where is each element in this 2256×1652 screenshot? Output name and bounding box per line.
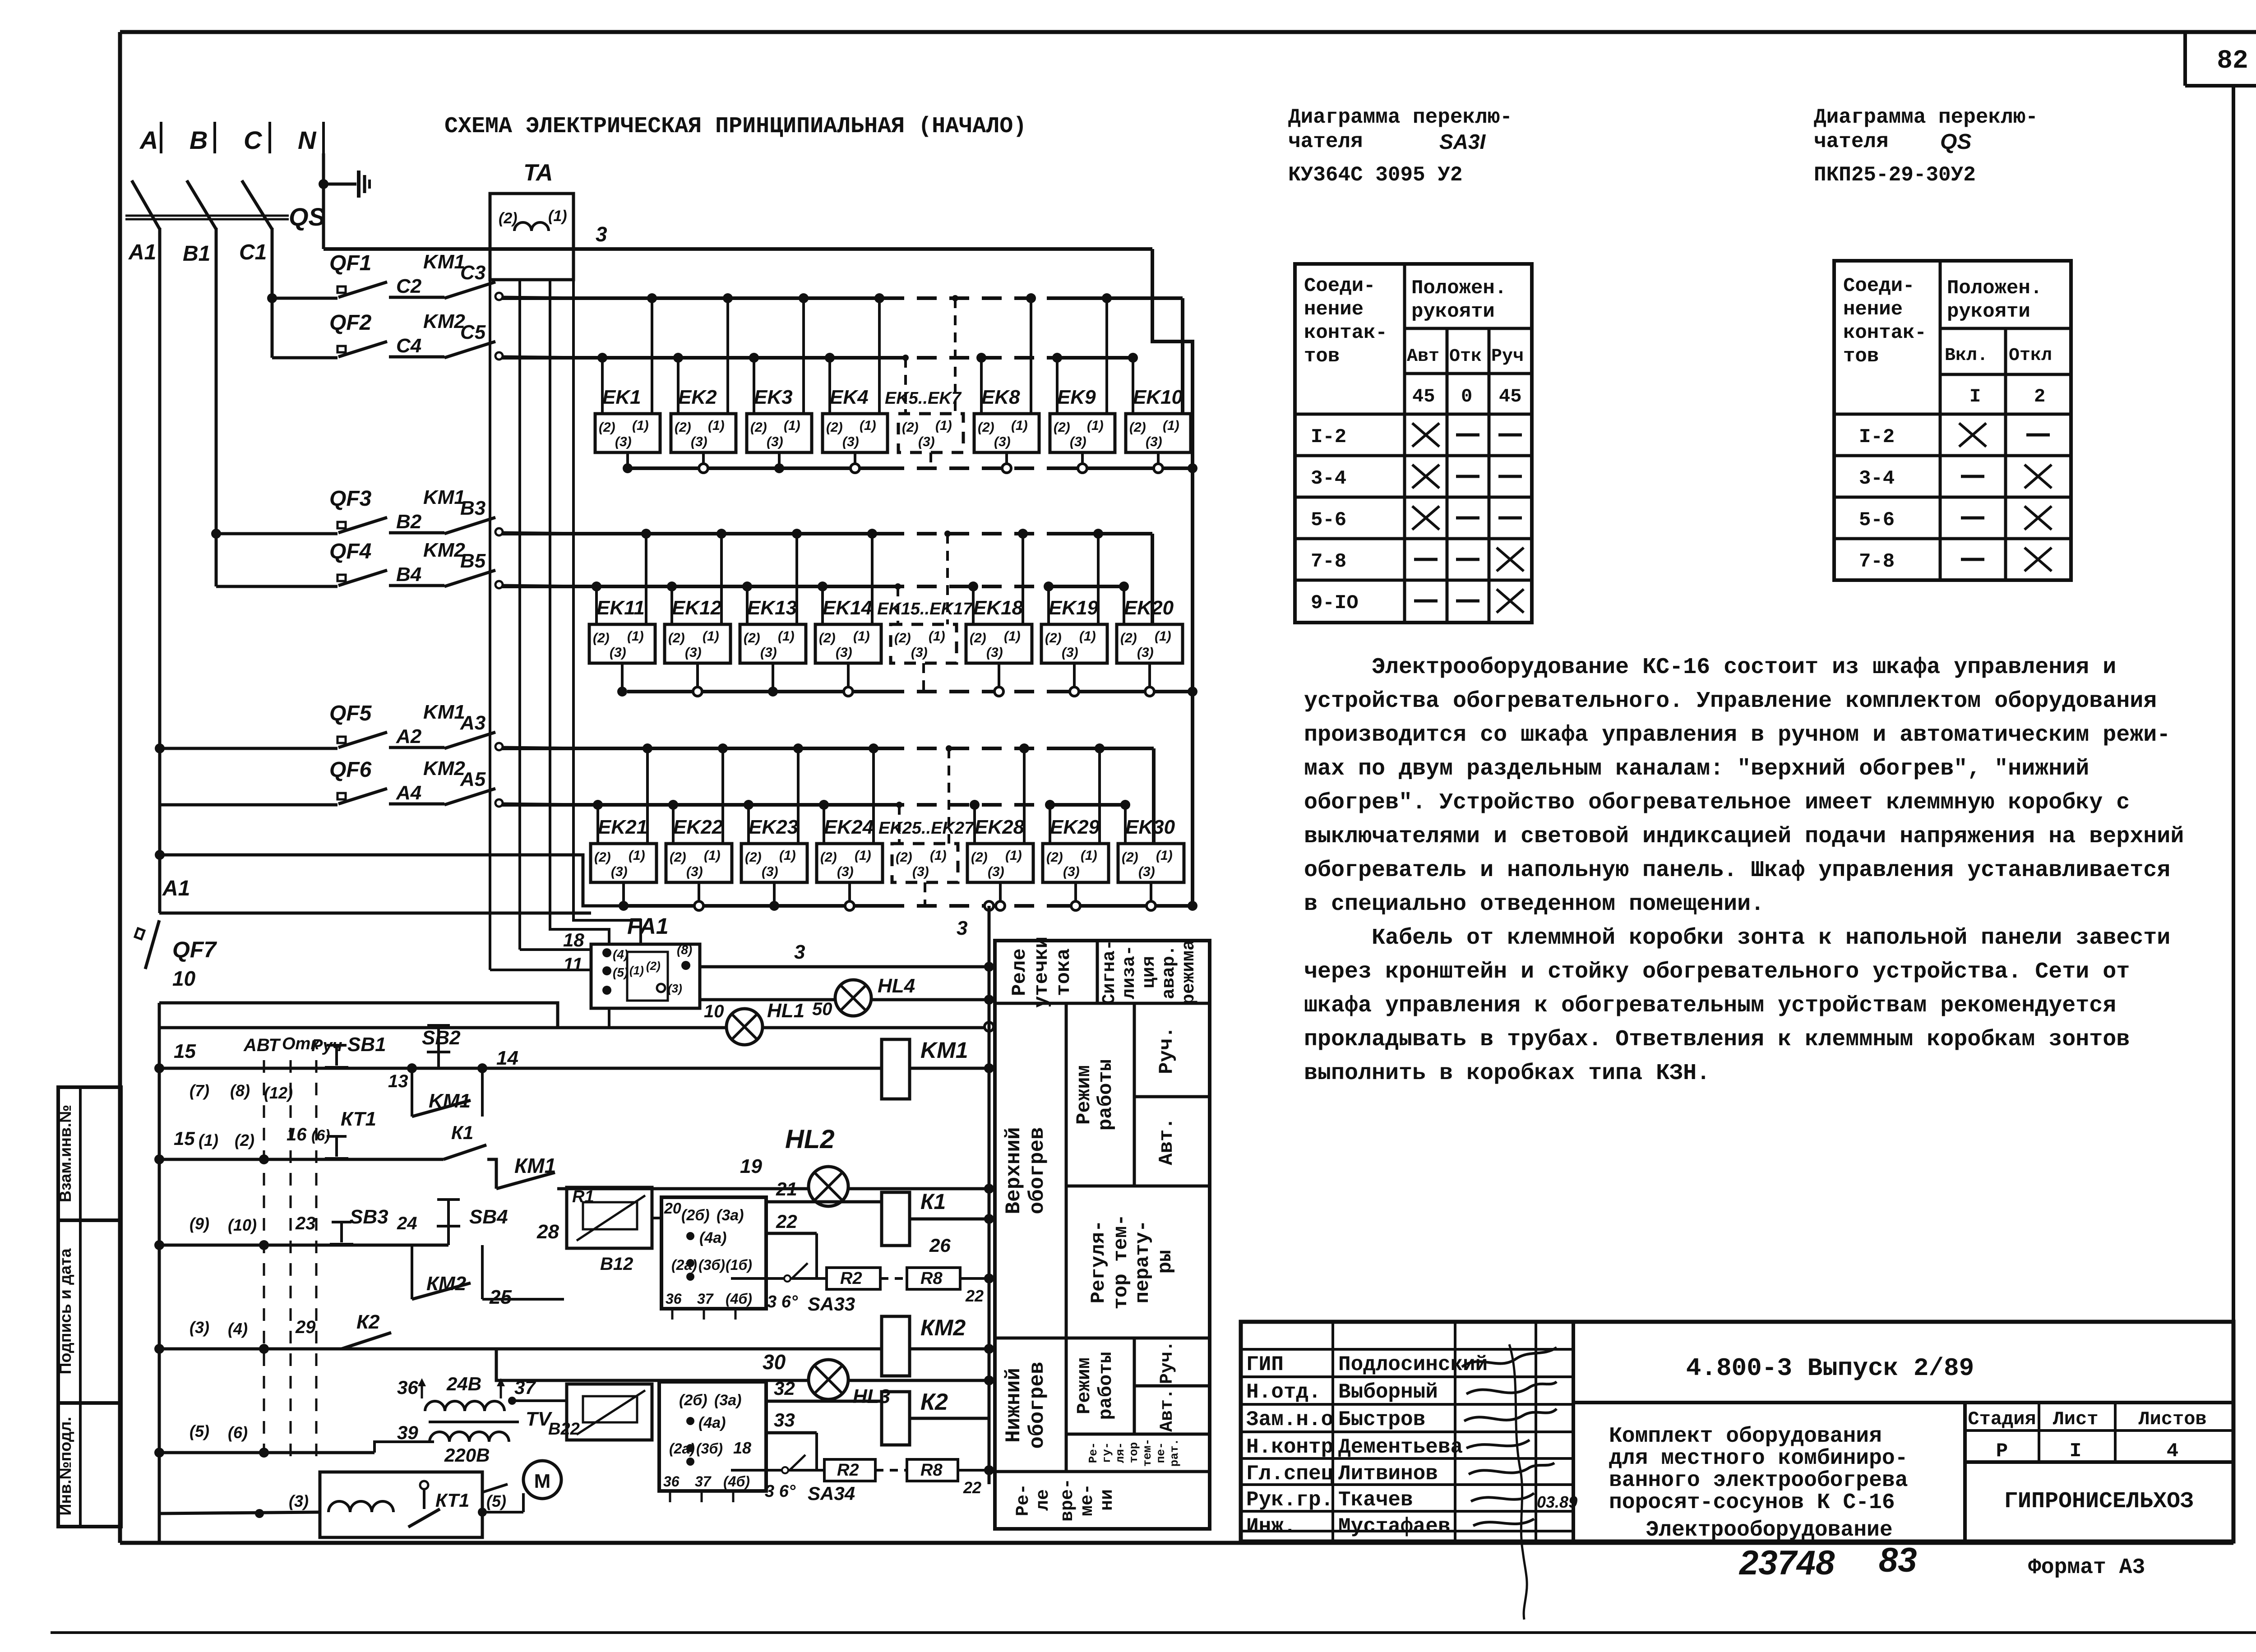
svg-text:мах по двум раздельным каналам: мах по двум раздельным каналам: "верхний… [1304,756,2089,782]
svg-text:39: 39 [397,1422,418,1443]
lower feed bus [502,356,884,360]
svg-text:(2): (2) [1122,850,1138,865]
cell Verkhniy obogrev [1065,1003,1068,1472]
wire to terminal 2 [672,805,675,844]
wire to terminal 2 [746,586,749,624]
svg-text:М: М [534,1470,551,1492]
svg-text:B2: B2 [396,511,422,533]
svg-text:37: 37 [695,1473,712,1490]
svg-text:SB4: SB4 [469,1206,508,1228]
svg-text:нение: нение [1304,298,1364,321]
svg-text:I: I [2070,1440,2081,1463]
svg-text:Ре-гу-ля-тортем-пе-рат.: Ре-гу-ля-тортем-пе-рат. [1086,1439,1181,1467]
svg-text:23: 23 [295,1214,316,1233]
mode table frame [995,941,1210,1529]
svg-text:33: 33 [774,1409,795,1431]
svg-text:(2): (2) [894,631,911,646]
svg-text:(1): (1) [1163,418,1179,433]
breaker QF3 [337,517,387,533]
svg-text:9-IO: 9-IO [1311,592,1359,614]
svg-text:HL2: HL2 [785,1125,835,1154]
wire [910,1067,989,1070]
svg-text:Взам.инв.№: Взам.инв.№ [56,1105,74,1202]
svg-text:(4б): (4б) [726,1291,752,1307]
svg-text:Откл: Откл [2009,346,2052,366]
wire sensor to regulator [652,1217,661,1219]
junction [155,850,165,860]
wire 22 [766,1232,817,1235]
svg-text:(5): (5) [190,1422,209,1440]
upper bus corner to last heater [1151,534,1154,624]
svg-text:(3): (3) [767,434,783,449]
wire [412,1244,448,1247]
wire to terminal 1 [871,534,874,624]
circuit breaker QF5 branch [155,743,165,753]
svg-text:A1: A1 [128,240,156,264]
svg-text:B4: B4 [396,563,421,586]
rung wire bottom feed [159,1451,374,1454]
contact terminal [495,352,503,360]
bus B vertical [215,228,218,586]
svg-text:QF1: QF1 [329,251,371,275]
FA1 terminal (4) [602,948,611,957]
wire 33 down to resistor chain [815,1433,818,1470]
wire HL3 branch [496,1349,989,1380]
wire N down to bus 3 [322,153,325,249]
wire terminal 3 to return bus [1073,663,1076,692]
svg-text:Электрооборудование: Электрооборудование [1646,1518,1892,1542]
svg-text:37: 37 [697,1291,714,1307]
svg-text:EK10: EK10 [1133,386,1183,408]
svg-text:KM1: KM1 [920,1038,968,1063]
svg-text:EK22: EK22 [673,816,723,838]
svg-text:15: 15 [174,1040,196,1062]
heater EK5..EK7 [898,414,963,452]
svg-text:(2): (2) [235,1131,254,1149]
svg-text:(3): (3) [986,645,1003,660]
coil K1 [882,1192,910,1246]
wire [910,1347,989,1351]
breaker QF4 [337,570,387,586]
temperature regulator A2 box [659,1382,766,1491]
wire TA1 to FA1 [490,969,591,971]
button SB4 [437,1200,460,1226]
junction [259,1154,269,1164]
TA secondary wire 1 [489,280,491,970]
svg-text:(3): (3) [1062,645,1078,660]
svg-text:(3): (3) [1146,434,1162,449]
cell Rezhim raboty upper [1133,1003,1136,1186]
svg-text:(8): (8) [230,1081,250,1100]
svg-text:выполнить в коробках типа КЗН.: выполнить в коробках типа КЗН. [1304,1061,1710,1086]
wire to terminal 1 [1098,748,1101,844]
junction [407,1063,417,1073]
circuit breaker QF6 branch [160,803,337,807]
wire TV to sensor B22 [512,1399,567,1402]
svg-text:EK18: EK18 [973,597,1023,619]
svg-text:29: 29 [295,1317,316,1337]
page number box [2183,32,2187,86]
heater EK14 [815,624,881,663]
svg-text:24В: 24В [446,1373,481,1394]
resistor R2 lower [824,1459,875,1481]
wire to terminal 1 [872,748,875,844]
wire [389,296,444,299]
sensor R1 box [567,1187,652,1248]
svg-text:QS: QS [289,203,325,231]
svg-text:SА3I: SА3I [1439,130,1486,153]
svg-text:ванного электрообогрева: ванного электрообогрева [1609,1468,1908,1493]
wire QF7 upper [159,912,591,915]
sheet top border line [120,30,2256,34]
heater EK24 [817,844,883,882]
heater EK2 [671,414,736,452]
svg-text:Верхнийобогрев: Верхнийобогрев [1002,1127,1049,1214]
coil K2 [882,1392,910,1445]
heater EK23 [741,844,807,882]
wire terminal 3 to return bus [1005,452,1008,468]
contact K2 [342,1333,391,1349]
wire [482,1298,564,1301]
wire to terminal 2 [1049,805,1051,844]
wire to terminal 2 [596,805,599,844]
heater EK18 [966,624,1032,663]
svg-text:SB1: SB1 [347,1034,386,1056]
wire resistor chain [731,1277,827,1280]
svg-text:выключателями и световой индик: выключателями и световой индиксацией под… [1304,824,2184,849]
contact terminal [495,581,503,588]
svg-text:(2): (2) [1120,631,1137,646]
regulator2 dots [686,1417,694,1425]
wire [389,584,444,587]
svg-text:контак-: контак- [1304,322,1387,344]
cell Ruch upper [1134,1095,1210,1098]
svg-text:32: 32 [774,1378,795,1399]
svg-text:Руч.: Руч. [1157,1341,1178,1384]
svg-text:C4: C4 [396,335,421,357]
svg-text:рукояти: рукояти [1411,300,1495,323]
svg-text:EK14: EK14 [823,597,872,619]
lower feed bus [502,585,884,588]
svg-text:(3а): (3а) [714,1392,741,1409]
ground [357,171,361,198]
svg-text:обогрев". Устройство обогреват: обогрев". Устройство обогревательное име… [1304,790,2130,816]
svg-text:EK19: EK19 [1049,597,1099,619]
svg-text:(1): (1) [855,848,871,863]
svg-text:в специально отведенном помещ: в специально отведенном помещении. [1304,891,1764,917]
svg-text:ГИП: ГИП [1246,1353,1284,1376]
TA winding [514,222,549,231]
svg-text:Положен.: Положен. [1947,277,2042,300]
wire to rail [958,1469,989,1472]
breaker QF1 [337,282,387,297]
junction [985,1022,994,1031]
wire to terminal 2 [828,358,831,414]
svg-text:A5: A5 [460,768,486,790]
svg-text:7-8: 7-8 [1859,550,1895,573]
svg-text:Листов: Листов [2138,1408,2206,1430]
svg-text:I-2: I-2 [1311,426,1346,448]
wire HL4 line [700,998,989,1001]
svg-text:(3): (3) [1063,864,1080,879]
svg-text:C5: C5 [460,321,486,343]
wire to terminal 1 [954,298,957,414]
svg-text:A4: A4 [396,782,421,804]
svg-text:4: 4 [2167,1440,2178,1463]
arrow up [500,1380,502,1398]
svg-text:3-4: 3-4 [1311,467,1346,490]
svg-text:82: 82 [2217,46,2248,76]
contact terminal [495,743,503,750]
temperature regulator A1 box [661,1197,766,1309]
svg-text:EK15..EK17: EK15..EK17 [877,600,973,618]
svg-text:B5: B5 [460,550,486,572]
svg-text:Авт.: Авт. [1156,1117,1178,1165]
sidebar box [58,1087,121,1527]
svg-text:(3): (3) [760,645,777,660]
svg-text:(1): (1) [703,629,719,644]
svg-text:(2): (2) [745,850,762,865]
circuit breaker QF2 branch [272,356,337,360]
junction [508,1397,516,1405]
svg-text:KM2: KM2 [423,310,465,332]
svg-text:(3): (3) [918,434,935,449]
svg-text:(7): (7) [190,1081,209,1100]
svg-text:EK25..EK27: EK25..EK27 [878,819,975,838]
wire terminal 3 to return bus [848,882,851,906]
svg-text:SA33: SA33 [808,1293,855,1315]
svg-text:(3): (3) [685,645,702,660]
wire step down [487,1159,496,1189]
svg-text:Формат А3: Формат А3 [2028,1555,2145,1580]
wire terminal 3 to return bus [999,882,1002,906]
heater EK12 [665,624,730,663]
svg-text:(2): (2) [646,959,661,973]
svg-text:(1): (1) [708,418,725,433]
svg-text:Инв.№подл.: Инв.№подл. [56,1417,74,1516]
svg-text:Режимработы: Режимработы [1073,1059,1117,1131]
wire terminal 3 to return bus [1081,452,1084,468]
svg-text:(1): (1) [1155,629,1171,644]
svg-text:через кронштейн и стойку обогр: через кронштейн и стойку обогревательног… [1304,959,2130,985]
wire 21 to K1 coil [766,1200,882,1204]
svg-text:К1: К1 [451,1122,473,1143]
svg-text:SB2: SB2 [422,1027,461,1049]
svg-text:Р: Р [1996,1440,2008,1463]
cell Regulator temperatury upper [1066,1337,1210,1340]
svg-text:QF4: QF4 [329,540,371,563]
svg-text:2: 2 [2034,386,2045,407]
wire to terminal 1 [651,298,653,414]
wire [437,1050,440,1068]
svg-text:Зам.н.о: Зам.н.о [1246,1408,1333,1431]
QS linkage double line [125,215,289,217]
svg-text:EK29: EK29 [1050,816,1100,838]
relay winding [328,1501,393,1512]
svg-text:Лист: Лист [2053,1408,2099,1430]
svg-text:К2: К2 [920,1389,948,1415]
contact terminal [495,293,503,300]
wire to bus [502,357,587,358]
wire 22 down to resistor chain [815,1233,818,1278]
svg-text:22: 22 [776,1211,797,1232]
svg-text:QF2: QF2 [329,311,372,335]
svg-text:QF5: QF5 [329,701,372,725]
wire to terminal 2 [980,358,983,414]
wire to terminal 1 [1023,748,1026,844]
lamp HL4 [835,980,871,1016]
svg-text:21: 21 [776,1178,797,1200]
svg-text:KM1: KM1 [429,1090,471,1112]
svg-text:КУ364С 3095 У2: КУ364С 3095 У2 [1288,163,1462,187]
svg-text:(2): (2) [675,420,691,435]
wire to terminal 1 [646,748,649,844]
svg-text:A: A [139,126,158,154]
svg-text:Кабель от клеммной коробки зон: Кабель от клеммной коробки зонта к напол… [1372,925,2170,951]
FA1 terminal A [602,986,611,995]
wire HL1 line / ladder top boundary [159,1026,989,1029]
wire A1 lower link [160,855,627,906]
wire resistor chain 2 [731,1469,824,1472]
junction [984,1184,994,1194]
wire QF7 lower [159,1003,558,1027]
svg-text:КМ2: КМ2 [426,1273,467,1295]
svg-text:(2): (2) [593,631,610,646]
svg-text:(1): (1) [1011,418,1028,433]
svg-text:0: 0 [1461,386,1472,407]
svg-text:ПКП25-29-30У2: ПКП25-29-30У2 [1814,163,1976,187]
svg-text:(3): (3) [836,645,852,660]
svg-text:(8): (8) [677,943,692,957]
svg-text:R2: R2 [840,1269,862,1288]
svg-text:Н.контр: Н.контр [1246,1435,1333,1459]
FA1 terminal (5) [602,966,611,975]
heater EK13 [740,624,806,663]
svg-text:(3): (3) [289,1492,309,1510]
svg-text:R1: R1 [572,1187,594,1206]
svg-text:Комплект оборудования: Комплект оборудования [1609,1424,1882,1449]
cell Ruch lower [1134,1384,1210,1388]
svg-text:Подпись и дата: Подпись и дата [56,1248,74,1375]
wire terminal 3 to return bus [1150,882,1152,906]
junction [255,1509,264,1518]
svg-text:36: 36 [397,1377,418,1398]
contactor contact KM2 [444,570,495,586]
svg-text:устройства обогревательного. У: устройства обогревательного. Управление … [1304,688,2157,714]
heater EK8 [974,414,1039,452]
heater EK1 [595,414,660,452]
breaker QF5 [337,732,387,748]
svg-text:чателя: чателя [1814,130,1889,153]
svg-text:(2): (2) [896,850,912,865]
svg-text:Стадия: Стадия [1968,1408,2036,1430]
button SB3 [330,1222,353,1244]
svg-text:(4а): (4а) [698,1414,726,1431]
svg-text:(2): (2) [826,420,843,435]
svg-text:11: 11 [563,954,583,975]
svg-text:Ткачев: Ткачев [1338,1488,1413,1512]
svg-text:(3): (3) [610,645,626,660]
sensor R1 element [583,1202,637,1229]
svg-text:(2): (2) [1129,420,1146,435]
svg-text:Мустафаев: Мустафаев [1338,1515,1450,1538]
wire 32 to K2 coil [766,1400,882,1403]
svg-text:поросят-сосунов К С-16: поросят-сосунов К С-16 [1609,1490,1895,1515]
wire to terminal 1 [948,748,950,844]
rung wire KM2 coil circuit [159,1347,882,1351]
svg-text:QF3: QF3 [329,487,372,511]
svg-text:7-8: 7-8 [1311,550,1346,573]
contact KM2 aux [411,1245,413,1299]
svg-text:(2): (2) [971,850,988,865]
heater EK3 [747,414,812,452]
breaker QF2 [337,341,387,357]
svg-text:KM2: KM2 [423,757,465,780]
heater EK4 [823,414,888,452]
svg-text:(3а): (3а) [717,1207,744,1224]
heater EK15..EK17 [891,624,957,663]
upper feed bus [502,296,884,300]
contactor contact KM2 [444,341,495,358]
resistor R2 [827,1268,880,1289]
TA secondary wire 4 [573,280,641,944]
svg-text:EK4: EK4 [830,386,869,408]
wire K1 to rail [910,1218,989,1221]
svg-text:(1): (1) [1087,418,1104,433]
svg-text:(1): (1) [853,629,870,644]
svg-text:QF6: QF6 [329,758,372,782]
svg-text:36: 36 [666,1291,682,1307]
svg-text:83: 83 [1879,1541,1917,1579]
FA1 inner box [627,952,668,1001]
button SB1 [325,1045,348,1067]
svg-text:R2: R2 [837,1461,859,1480]
svg-text:рукояти: рукояти [1947,300,2030,323]
wire to terminal 2 [677,358,680,414]
wire to terminal 2 [1056,358,1059,414]
wire to terminal 2 [601,358,604,414]
phase terminal tick A [160,122,162,153]
svg-text:Н.отд.: Н.отд. [1246,1380,1321,1404]
svg-text:В22: В22 [548,1420,580,1439]
svg-text:SA34: SA34 [808,1483,855,1504]
wire to bus [502,804,587,805]
wire to terminal 2 [1123,586,1125,624]
svg-text:HL1: HL1 [767,1000,804,1022]
svg-text:(3): (3) [668,982,682,995]
wire to terminal 2 [898,805,901,844]
svg-text:FA1: FA1 [627,914,669,939]
junction [259,1240,269,1250]
wire terminal 3 to return bus [773,882,776,906]
svg-text:EK11: EK11 [596,597,645,619]
upper feed bus [502,747,884,750]
wire to terminal 2 [904,358,907,414]
wire to terminal 2 [747,805,750,844]
coil KM1 [882,1039,910,1099]
wire terminal 3 to return bus [626,452,629,468]
svg-text:(3): (3) [842,434,859,449]
svg-text:(3): (3) [611,864,628,879]
svg-text:(2): (2) [819,631,836,646]
svg-text:К1: К1 [920,1190,946,1214]
phase terminal tick N [322,122,325,153]
svg-text:EK12: EK12 [672,597,722,619]
svg-text:37: 37 [514,1377,536,1398]
svg-text:(1): (1) [930,848,947,863]
svg-text:KM1: KM1 [423,701,465,723]
svg-text:Диаграмма переклю-: Диаграмма переклю- [1814,106,2038,129]
